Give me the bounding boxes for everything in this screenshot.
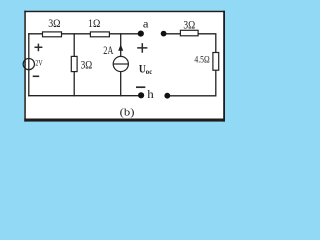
- current source I1 2A: [103, 44, 128, 71]
- resistor R5 4.5ohm (right vertical): [194, 53, 218, 71]
- resistor R4 3ohm (top right): [180, 19, 198, 35]
- svg-text:2V: 2V: [35, 58, 42, 67]
- node a: [138, 17, 150, 37]
- wire bottom (left network): [29, 95, 141, 97]
- port minus sign: [136, 86, 145, 88]
- node (right top terminal): [161, 31, 167, 37]
- panel border left: [24, 11, 26, 122]
- svg-text:(b): (b): [120, 106, 135, 118]
- panel border bottom: [24, 119, 225, 122]
- resistor R3 3ohm (middle vertical): [71, 56, 92, 71]
- resistor R1 3ohm (top left): [43, 18, 62, 37]
- wire middle branch: [73, 34, 75, 96]
- panel border top: [24, 11, 225, 13]
- svg-text:1Ω: 1Ω: [88, 18, 100, 30]
- svg-text:oc: oc: [146, 69, 152, 76]
- wire left branch: [28, 34, 30, 96]
- voltage source V1 2V: [23, 44, 43, 77]
- svg-text:3Ω: 3Ω: [183, 19, 195, 31]
- svg-text:h: h: [147, 89, 154, 101]
- node (right bottom terminal): [164, 93, 170, 99]
- svg-text:3Ω: 3Ω: [48, 18, 60, 30]
- port Uoc label: [139, 63, 152, 76]
- panel border right: [223, 11, 225, 122]
- node h: [138, 89, 154, 101]
- resistor R2 1ohm (top middle): [88, 18, 109, 37]
- wire top (left network): [29, 33, 141, 35]
- svg-text:4.5Ω: 4.5Ω: [194, 55, 209, 65]
- svg-text:2A: 2A: [103, 45, 114, 57]
- svg-text:a: a: [143, 17, 149, 31]
- port plus sign: [137, 43, 147, 53]
- white panel: [24, 11, 225, 122]
- svg-text:3Ω: 3Ω: [81, 59, 93, 71]
- wire 2A branch: [120, 34, 122, 96]
- wire top (right network): [164, 34, 216, 96]
